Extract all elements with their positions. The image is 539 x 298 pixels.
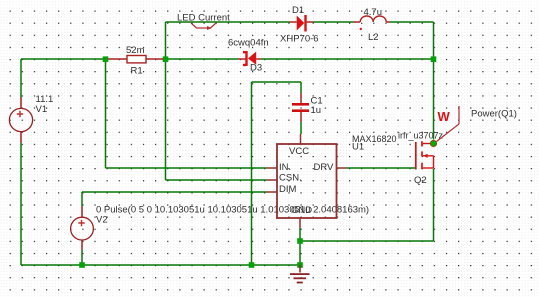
svg-text:GND: GND xyxy=(291,205,312,216)
channel dash top xyxy=(421,141,423,146)
wire top rail left segment xyxy=(166,21,290,23)
MOSFET Q2 xyxy=(398,131,444,187)
wire top rail mid segment xyxy=(314,21,354,23)
svg-text:DRV: DRV xyxy=(314,162,335,173)
wire top rail right segment xyxy=(390,21,434,23)
diode D1 xyxy=(280,5,319,45)
wire DIM row to U1 xyxy=(82,191,267,193)
svg-text:4.7u: 4.7u xyxy=(364,7,383,18)
svg-text:52m: 52m xyxy=(126,45,145,56)
body to source vertical xyxy=(433,156,435,168)
junction ground top xyxy=(297,238,303,244)
pin stub DIM xyxy=(267,191,278,193)
wire V1 bottom to rail xyxy=(20,143,22,265)
body stub with arrow xyxy=(423,155,434,157)
svg-text:LED Current: LED Current xyxy=(177,13,230,24)
wire rail2 R1 to D3 xyxy=(168,58,238,60)
svg-text:V2: V2 xyxy=(96,215,108,226)
wire y=241 source to GND node xyxy=(300,240,434,242)
svg-text:DIM: DIM xyxy=(279,184,297,195)
voltage source V2 xyxy=(71,205,369,251)
drain node dot xyxy=(431,141,437,147)
junction C1 net bottom xyxy=(249,262,255,268)
wire IN row to U1 xyxy=(106,167,267,169)
source stub xyxy=(423,167,434,169)
junction right rail x=433.5 xyxy=(431,56,437,62)
gate bar xyxy=(415,142,417,170)
wire rail2 D3 to right junction xyxy=(261,58,434,60)
svg-text:XHP70-6: XHP70-6 xyxy=(280,34,319,45)
junction ground bottom xyxy=(297,262,303,268)
channel dash mid xyxy=(421,151,423,156)
wire vertical x=165.5 from top rail to CSN row xyxy=(165,22,167,180)
ground xyxy=(290,265,310,283)
channel dash bottom xyxy=(421,163,423,170)
inductor L2 xyxy=(354,7,391,43)
pin stub IN xyxy=(267,167,278,169)
wire C1 bottom green part xyxy=(300,122,302,134)
junction V2 bottom xyxy=(79,262,85,268)
svg-text:6cwq04fn: 6cwq04fn xyxy=(228,38,269,49)
IC U1 MAX16820 xyxy=(267,134,397,228)
wire V2 bottom to rail xyxy=(81,250,83,265)
wire C1 ground vertical x=251.5 xyxy=(251,82,253,265)
voltage source V1 xyxy=(9,94,53,143)
wire GND pin down xyxy=(299,228,301,265)
svg-text:0 Pulse(0 5 0 10.103051u 10.10: 0 Pulse(0 5 0 10.103051u 10.103051u 1.01… xyxy=(96,205,369,216)
svg-text:VCC: VCC xyxy=(289,146,309,157)
svg-text:IN.: IN. xyxy=(279,162,291,173)
wire C1 top horizontal xyxy=(252,81,302,83)
wire x=105.5 down to IN row xyxy=(105,59,107,168)
svg-text:Q2: Q2 xyxy=(414,175,427,186)
resistor R1 xyxy=(108,45,163,77)
capacitor C1 xyxy=(292,93,323,122)
wire V1 top xyxy=(20,59,22,97)
drain stub xyxy=(423,143,431,145)
diode D3 (schottky) xyxy=(228,38,269,74)
svg-text:1u: 1u xyxy=(311,105,322,116)
svg-text:D1: D1 xyxy=(292,5,304,16)
wire DRV to gate xyxy=(347,167,416,169)
pin stub VCC xyxy=(300,134,302,144)
svg-text:V1: V1 xyxy=(36,104,48,115)
current probe LED Current xyxy=(177,13,230,31)
pin stub CSN xyxy=(267,179,278,181)
power probe Power(Q1) xyxy=(437,106,517,142)
wire rail2 V1 to R1 xyxy=(21,58,106,60)
svg-text:L2: L2 xyxy=(368,32,379,43)
pin stub DRV xyxy=(337,167,347,169)
svg-text:D3: D3 xyxy=(250,63,262,74)
wire bottom ground rail xyxy=(21,264,300,266)
junction R1 left xyxy=(103,56,109,62)
svg-text:R1: R1 xyxy=(131,66,143,77)
junction R1 right xyxy=(163,56,169,62)
svg-text:W: W xyxy=(438,109,451,124)
svg-text:irfr_u3707z: irfr_u3707z xyxy=(398,131,444,141)
wire V2 top vertical xyxy=(81,192,83,206)
wire C1 top lead green part xyxy=(300,82,302,93)
svg-text:CSN.: CSN. xyxy=(279,173,302,184)
svg-text:Power(Q1): Power(Q1) xyxy=(471,109,517,120)
svg-text:U1: U1 xyxy=(352,142,364,153)
wire vertical x=433.5 top rail to drain xyxy=(433,22,435,140)
wire MOSFET source down xyxy=(433,169,435,241)
wire CSN row to U1 xyxy=(166,179,267,181)
pin stub GND xyxy=(299,218,301,228)
